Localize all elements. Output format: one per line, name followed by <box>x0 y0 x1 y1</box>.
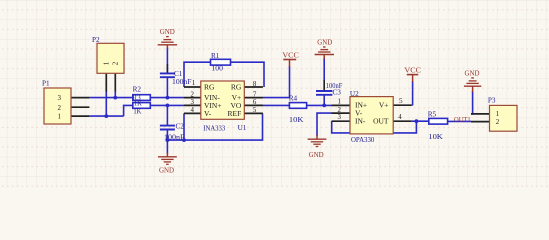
ground GND (top left, above C1) <box>158 37 177 49</box>
svg-text:GND: GND <box>160 28 175 36</box>
svg-text:2: 2 <box>191 91 195 98</box>
pin U2.3 <box>332 120 351 122</box>
svg-text:1K: 1K <box>133 108 142 116</box>
pin P3.1 <box>471 113 490 115</box>
wire U2 V- to GND <box>317 113 332 136</box>
pin U1.4 <box>184 112 201 114</box>
svg-text:R5: R5 <box>428 111 437 119</box>
wire VCC to U2 V+ <box>411 81 414 105</box>
svg-text:10K: 10K <box>428 133 443 141</box>
pin P2.2 <box>114 73 116 91</box>
svg-text:RG: RG <box>204 83 215 92</box>
wire P2 pin2 drop <box>114 91 116 97</box>
svg-text:7: 7 <box>253 91 257 98</box>
capacitor C2 <box>160 123 185 142</box>
svg-text:GND: GND <box>317 38 332 46</box>
resistor R2 <box>133 86 151 101</box>
junction C1 / VIN- <box>166 96 170 100</box>
resistor R5 <box>428 111 448 141</box>
pin C1 upper <box>166 64 168 73</box>
wire GND to C3 <box>323 58 325 90</box>
pin P3.2 <box>471 121 490 123</box>
power VCC (left, U1 V+) <box>283 60 296 68</box>
svg-text:GND: GND <box>309 151 324 159</box>
svg-text:2: 2 <box>338 107 342 114</box>
svg-text:RG: RG <box>231 83 242 92</box>
svg-text:P3: P3 <box>488 97 496 105</box>
pin U2.5 <box>393 104 412 106</box>
svg-text:3: 3 <box>58 94 62 102</box>
wire GND to C1 <box>166 48 168 73</box>
svg-text:OPA330: OPA330 <box>351 136 375 144</box>
capacitor C3 <box>316 82 342 97</box>
svg-text:4: 4 <box>398 114 402 121</box>
wire P1 pin1 to jog corner <box>89 115 124 117</box>
wire R4 to U2 IN+ <box>307 104 332 106</box>
junction C2 / VIN+ <box>166 104 170 108</box>
ground GND (top middle, above C3) <box>315 47 334 59</box>
svg-text:100: 100 <box>212 64 224 72</box>
pin P1.1 <box>71 115 89 117</box>
svg-text:R4: R4 <box>289 95 298 103</box>
svg-text:3: 3 <box>338 114 342 121</box>
pin U1.1 <box>184 86 201 88</box>
wire jog up to R3 row <box>124 105 133 116</box>
resistor R3 <box>132 94 150 116</box>
pin U2.2 <box>332 112 351 114</box>
svg-text:GND: GND <box>465 70 480 78</box>
junction V- / ground rail <box>182 138 186 142</box>
svg-text:OUT: OUT <box>373 117 389 126</box>
junction P2.1 / P1.1 <box>104 114 108 118</box>
svg-text:3: 3 <box>191 99 195 106</box>
wire C1 to VIN- row <box>166 78 168 98</box>
connector P2 <box>92 36 124 73</box>
wire U2 IN- feedback loop <box>332 121 417 133</box>
svg-text:1: 1 <box>496 110 500 118</box>
pin U1.2 <box>184 97 201 99</box>
svg-text:6: 6 <box>253 99 257 106</box>
svg-text:8: 8 <box>253 81 257 88</box>
wire R5 to P3 pin2 (OUT1 net) <box>448 120 471 122</box>
svg-text:5: 5 <box>399 98 403 105</box>
svg-text:100nF: 100nF <box>164 133 185 141</box>
wire R3 to U1 VIN+ pin <box>150 104 184 106</box>
junction C3 / IN+ row <box>322 104 326 108</box>
svg-text:U2: U2 <box>350 90 359 98</box>
pin U1.7 <box>244 97 263 99</box>
svg-text:2: 2 <box>111 61 119 65</box>
svg-text:10K: 10K <box>289 116 305 124</box>
junction C2 / ground rail <box>166 138 170 142</box>
svg-text:VCC: VCC <box>404 67 421 75</box>
svg-text:V-: V- <box>204 109 212 118</box>
svg-text:5: 5 <box>253 107 257 114</box>
svg-text:100nF: 100nF <box>172 78 192 86</box>
capacitor C1 <box>160 70 192 86</box>
connector P3 <box>488 97 517 132</box>
wire C2 to ground rail <box>166 130 168 153</box>
svg-text:4: 4 <box>191 107 195 114</box>
wire VCC to U1 V+ <box>263 66 290 98</box>
wire P2 pin1 drop <box>105 91 107 116</box>
wire P1 pin3 to R2 (VIN- net) <box>89 97 133 99</box>
svg-text:P2: P2 <box>92 36 100 44</box>
svg-text:2: 2 <box>496 118 500 126</box>
junction feedback / OUT <box>415 119 419 123</box>
svg-text:C2: C2 <box>176 123 185 131</box>
wire R1 loop <box>184 62 264 87</box>
wire U2 OUT to R5 <box>412 120 429 122</box>
junction P2.2 / VIN- <box>113 96 117 100</box>
svg-text:V+: V+ <box>379 101 389 110</box>
wire VIN+ row to C2 <box>166 105 168 125</box>
op-amp U2 OPA330 <box>338 90 404 144</box>
wire C3 to IN+ row <box>323 95 325 105</box>
svg-text:GND: GND <box>159 167 174 175</box>
ground GND (bottom left, below C2) <box>158 153 177 165</box>
connector P1 <box>42 80 71 125</box>
svg-text:R2: R2 <box>133 86 142 94</box>
svg-text:P1: P1 <box>42 80 50 88</box>
pin U1.5 <box>244 112 263 114</box>
resistor R1 <box>211 52 231 72</box>
svg-text:2: 2 <box>58 104 62 112</box>
svg-text:100nF: 100nF <box>326 82 343 90</box>
svg-text:C1: C1 <box>174 70 183 78</box>
svg-text:VCC: VCC <box>282 52 299 60</box>
wire U1 VO to R4 <box>263 104 290 106</box>
svg-text:INA333: INA333 <box>203 124 225 132</box>
resistor R4 <box>289 95 307 124</box>
pin U1.3 <box>184 104 201 106</box>
pin P2.1 <box>105 73 107 91</box>
pin C3 upper <box>323 80 325 90</box>
pin U2.1 <box>332 104 351 106</box>
svg-text:IN-: IN- <box>355 117 366 126</box>
wire V-/REF ground rail <box>167 113 262 140</box>
svg-text:1: 1 <box>192 80 196 87</box>
svg-text:1K: 1K <box>134 100 143 108</box>
pin U1.6 <box>244 104 263 106</box>
pin U1.8 <box>244 86 263 88</box>
wire GND to P3 pin1 <box>471 91 473 114</box>
svg-text:1: 1 <box>102 61 110 65</box>
svg-text:1: 1 <box>58 113 62 121</box>
svg-text:R1: R1 <box>211 52 220 60</box>
svg-text:U1: U1 <box>238 124 247 132</box>
wire R2 to U1 VIN- pin <box>150 97 184 99</box>
svg-text:REF: REF <box>228 109 242 118</box>
op-amp U1 INA333 <box>191 80 257 133</box>
ground GND (above P3) <box>464 78 481 92</box>
pin U2.4 <box>393 120 412 122</box>
svg-text:OUT1: OUT1 <box>454 116 471 124</box>
pin P1.2 <box>71 106 89 108</box>
power VCC (right, U2 V+) <box>407 75 418 82</box>
pin P1.3 <box>71 97 89 99</box>
ground GND (below U2) <box>308 135 327 147</box>
svg-text:1: 1 <box>338 99 342 106</box>
